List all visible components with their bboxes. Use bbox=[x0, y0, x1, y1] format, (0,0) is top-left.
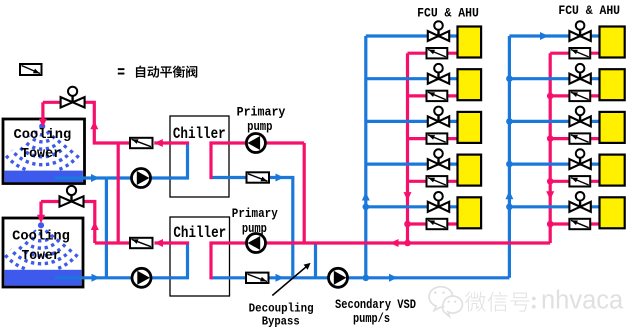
valve: CT2 top two-way V2 bbox=[60, 186, 84, 207]
wire: CT2 valve pink left bbox=[41, 200, 61, 203]
wire: bal valve BV-C2 to CH2 bbox=[155, 241, 173, 244]
arrow: into bal valve BV-C1 bbox=[154, 139, 163, 147]
wire: condenser blue riser bbox=[105, 178, 108, 278]
wire: col2 unit3 blue branch bbox=[509, 120, 599, 123]
valve: balancing BV-C2 bbox=[130, 238, 153, 248]
valve: col2 unit2 balancing bbox=[569, 91, 590, 101]
valve: col2 unit5 two-way bbox=[569, 192, 590, 212]
wire: primary pump P1 pink bbox=[229, 141, 304, 144]
arrow: CT2 outlet flow right bbox=[92, 274, 101, 282]
valve: col1 unit3 balancing bbox=[427, 133, 448, 143]
wire: CH2 evap pink internal bbox=[211, 243, 230, 279]
svg-text:Chiller: Chiller bbox=[173, 224, 226, 242]
valve: col1 unit2 two-way bbox=[428, 64, 449, 84]
valve: balancing BV-C1 bbox=[130, 138, 153, 148]
valve: col1 unit5 balancing bbox=[427, 219, 448, 229]
svg-text:nhvaca: nhvaca bbox=[541, 287, 624, 315]
valve: col2 unit4 two-way bbox=[569, 149, 590, 169]
wire: col2 unit2 pink branch bbox=[550, 94, 599, 97]
CT1 spray arcs bbox=[6, 123, 79, 169]
wire: col1 unit5 pink branch bbox=[408, 222, 458, 225]
svg-text:FCU & AHU: FCU & AHU bbox=[558, 3, 620, 18]
valve: col1 unit4 two-way bbox=[428, 149, 449, 169]
wire: col1 unit5 blue branch bbox=[366, 205, 458, 208]
FCU coil col2 unit3 bbox=[600, 112, 625, 143]
arrow: col1 blue riser up bbox=[362, 192, 370, 201]
arrow: col2 pink riser down bbox=[546, 191, 554, 200]
svg-text:Primary: Primary bbox=[237, 104, 286, 119]
pump: primary CHWP1 bbox=[246, 134, 265, 153]
wire: CT1 blue to pump CWP1 bbox=[106, 176, 172, 179]
FCU coil col1 unit5 bbox=[458, 197, 482, 228]
node: col2 unit4 pink tee bbox=[547, 178, 554, 185]
arrow: col1 pink riser down bbox=[404, 192, 412, 201]
wire: CH2 condenser pink internal bbox=[170, 241, 189, 244]
wire: decoupling bypass bbox=[314, 243, 317, 278]
wire: CT2 valve pink right + riser bbox=[82, 202, 95, 244]
pump: condenser CWP2 bbox=[132, 268, 151, 287]
wire: CH2 evaporator blue outlet bbox=[211, 276, 293, 279]
chiller CH1 box bbox=[170, 116, 229, 197]
FCU coil col2 unit1 bbox=[600, 27, 625, 58]
valve: col1 unit1 two-way bbox=[428, 21, 449, 41]
legend: text 自 bbox=[136, 66, 145, 78]
valve: col2 unit4 balancing bbox=[569, 176, 590, 186]
CT1 basin water bbox=[5, 171, 83, 183]
CT2 spray arcs bbox=[5, 222, 78, 269]
node: col2 unit5 pink tee bbox=[547, 221, 554, 228]
valve: balancing BV-E2 bbox=[246, 273, 269, 283]
valve: col2 unit3 two-way bbox=[569, 107, 590, 127]
FCU coil col1 unit2 bbox=[458, 69, 482, 100]
node: col2 unit3 blue tee bbox=[506, 118, 513, 125]
node: col1 unit5 blue tee bbox=[363, 204, 370, 211]
annotation arrow to bypass bbox=[272, 263, 310, 296]
wire: CT1 valve pink left bbox=[43, 101, 62, 104]
svg-text:Cooling: Cooling bbox=[14, 127, 72, 143]
node: col2 unit2 blue tee bbox=[506, 75, 513, 82]
svg-text:Tower: Tower bbox=[21, 146, 61, 162]
pump: condenser CWP1 bbox=[132, 169, 151, 188]
wire: CT2 pink to bal valve BV-C2 bbox=[95, 241, 131, 244]
valve: col2 unit1 two-way bbox=[569, 21, 590, 41]
wire: col2 unit1 blue branch bbox=[509, 34, 599, 37]
wire: col1 unit1 pink branch bbox=[408, 52, 458, 55]
FCU coil col2 unit5 bbox=[600, 197, 625, 228]
wire: col2 unit1 pink branch bbox=[550, 52, 599, 55]
wire: FCU col1 pink riser bbox=[406, 53, 409, 243]
legend: text 衡 bbox=[173, 66, 185, 78]
valve: col2 unit3 balancing bbox=[569, 133, 590, 143]
node: col2 unit5 blue tee bbox=[506, 204, 513, 211]
wire: CH1 evap pink internal bbox=[211, 143, 229, 179]
arrow: CT2 inlet flow down bbox=[37, 215, 45, 224]
arrow: secondary supply flow right bbox=[389, 274, 398, 282]
valve: col2 unit5 balancing bbox=[569, 219, 590, 229]
pump: secondary VSD bbox=[329, 268, 348, 287]
node: col2 unit2 pink tee bbox=[547, 93, 554, 100]
watermark: text 号 bbox=[511, 293, 530, 312]
FCU coil col1 unit4 bbox=[458, 155, 482, 186]
legend: text 动 bbox=[147, 66, 159, 78]
watermark: text 微 bbox=[465, 292, 486, 312]
arrow: CT1 outlet flow right bbox=[91, 174, 100, 182]
wire: col1 unit3 pink branch bbox=[408, 137, 458, 140]
valve: col1 unit5 two-way bbox=[428, 192, 449, 212]
wire: col1 unit1 blue branch bbox=[366, 34, 458, 37]
arrow: tower2 riser flow up bbox=[91, 222, 99, 231]
chiller CH2 box bbox=[170, 217, 230, 296]
wire: CH1 condenser pink internal bbox=[170, 141, 189, 144]
wire: CH1 condenser blue internal bbox=[170, 143, 188, 178]
node: return header / col1 pink riser bbox=[404, 240, 411, 247]
wire: bal valve BV-C1 to CH1 bbox=[154, 141, 172, 144]
wire: primary P1 riser down bbox=[303, 143, 306, 243]
valve: col2 unit2 two-way bbox=[569, 64, 590, 84]
FCU coil col2 unit2 bbox=[600, 69, 625, 100]
valve: col1 unit3 two-way bbox=[428, 107, 449, 127]
wire: col2 unit5 pink branch bbox=[550, 222, 599, 225]
wire: col2 unit4 pink branch bbox=[550, 180, 599, 183]
FCU coil col1 unit3 bbox=[458, 112, 482, 143]
cooling tower CT1 box bbox=[3, 119, 85, 184]
wire: col1 unit2 pink branch bbox=[408, 94, 458, 97]
wire: FCU col2 blue riser bbox=[508, 36, 511, 278]
wire: FCU col1 blue riser bbox=[364, 36, 367, 278]
valve: col1 unit2 balancing bbox=[427, 91, 448, 101]
watermark: text 信 bbox=[488, 292, 508, 312]
svg-text:Secondary VSD: Secondary VSD bbox=[335, 298, 416, 312]
cooling tower CT2 box bbox=[3, 218, 83, 287]
wire: CT2 outlet blue bbox=[55, 276, 172, 279]
svg-text:Bypass: Bypass bbox=[262, 315, 300, 329]
node: col2 unit3 pink tee bbox=[547, 135, 554, 142]
arrow: col2 blue riser up bbox=[505, 191, 513, 200]
valve: balancing BV-E1 bbox=[247, 172, 270, 182]
valve: col1 unit4 balancing bbox=[427, 176, 448, 186]
node: col2 unit4 blue tee bbox=[506, 161, 513, 168]
svg-text:Tower: Tower bbox=[22, 248, 61, 264]
watermark: colon bbox=[532, 297, 536, 301]
wire: col2 unit4 blue branch bbox=[509, 163, 599, 166]
valve: CT1 top two-way V1 bbox=[61, 87, 85, 108]
valve: col1 unit1 balancing bbox=[427, 48, 448, 58]
svg-text:Decoupling: Decoupling bbox=[249, 301, 314, 315]
legend: text 平 bbox=[160, 66, 172, 77]
wire: evap blue riser CH1 bbox=[291, 178, 294, 278]
legend: equals sign bbox=[118, 68, 125, 70]
wire: CT1 valve pink right + riser down bbox=[83, 102, 131, 143]
wire: cond pink riser interconnect bbox=[117, 143, 120, 243]
arrow: return header flow left bbox=[390, 239, 399, 247]
wire: CT1 inlet pink drop bbox=[41, 102, 44, 122]
svg-text:Chiller: Chiller bbox=[173, 125, 226, 143]
node: secondary header / FCU col1 riser bbox=[363, 275, 370, 282]
svg-text:pump: pump bbox=[247, 119, 273, 134]
FCU coil col1 unit1 bbox=[458, 27, 482, 58]
svg-text:pump/s: pump/s bbox=[353, 312, 390, 326]
wire: FCU col2 pink riser bbox=[549, 53, 552, 243]
arrow: into bal valve BV-C2 bbox=[155, 239, 164, 247]
wire: col2 unit2 blue branch bbox=[509, 77, 599, 80]
wire: col1 unit4 blue branch bbox=[366, 163, 458, 166]
valve: col2 unit1 balancing bbox=[569, 48, 590, 58]
pump: primary CHWP2 bbox=[247, 234, 266, 253]
FCU coil col2 unit4 bbox=[600, 155, 625, 186]
wire: col1 unit4 pink branch bbox=[408, 180, 458, 183]
wire: CH1 evaporator blue outlet bbox=[211, 176, 294, 179]
svg-text:FCU & AHU: FCU & AHU bbox=[417, 6, 479, 21]
svg-text:Primary: Primary bbox=[232, 206, 278, 221]
wire: CT1 outlet blue bbox=[55, 176, 106, 179]
legend: text 阀 bbox=[186, 66, 197, 78]
wire: col1 unit2 blue branch bbox=[366, 77, 458, 80]
wire: col1 unit3 blue branch bbox=[366, 120, 458, 123]
wire: col2 unit5 blue branch bbox=[509, 205, 599, 208]
CT2 basin water bbox=[5, 270, 82, 286]
arrow: CH1 evap flow right bbox=[276, 174, 285, 182]
wire: return header pink bbox=[230, 241, 551, 244]
arrow: tower1 riser flow up bbox=[90, 121, 98, 130]
svg-text:pump: pump bbox=[242, 221, 267, 236]
node: col1 unit5 pink tee bbox=[404, 221, 411, 228]
wire: col2 unit3 pink branch bbox=[550, 137, 599, 140]
wire: CT2 inlet pink drop bbox=[39, 202, 42, 218]
arrow: CT1 inlet flow down bbox=[39, 119, 47, 128]
legend: balancing valve symbol bbox=[20, 64, 42, 75]
arrow: CH2 evap flow right bbox=[276, 274, 285, 282]
wire: CH2 condenser blue internal bbox=[170, 243, 188, 278]
wire: secondary supply header bbox=[293, 276, 510, 279]
watermark: wechat logo bbox=[429, 287, 462, 317]
arrow: col2 top branch flow right bbox=[540, 32, 549, 40]
svg-text:Cooling: Cooling bbox=[12, 228, 70, 244]
